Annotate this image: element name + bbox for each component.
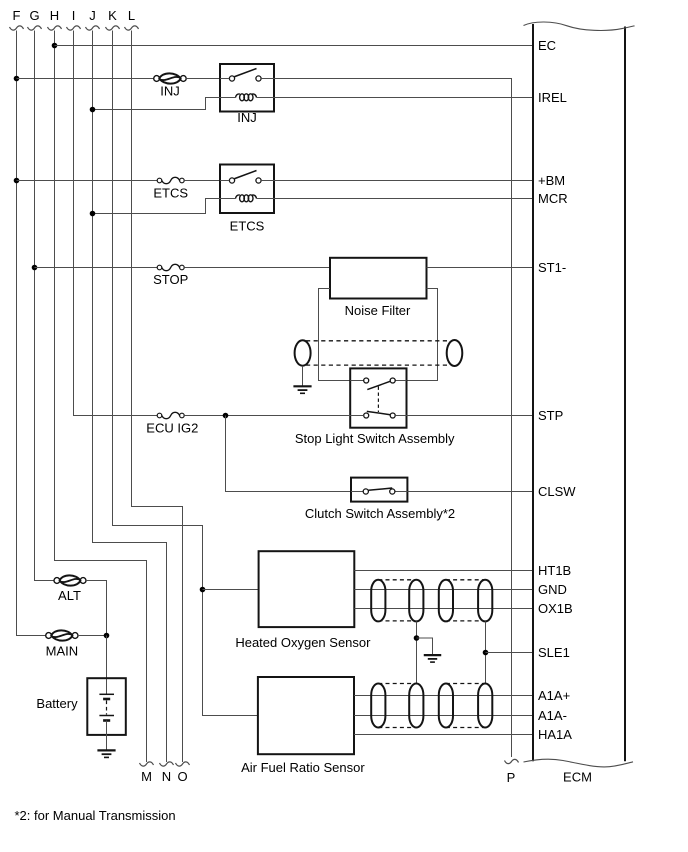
wire H <box>55 31 147 763</box>
svg-text:*2: for Manual Transmission: *2: for Manual Transmission <box>15 808 176 823</box>
svg-text:K: K <box>108 8 117 23</box>
svg-text:IREL: IREL <box>538 90 567 105</box>
junction on J for ETCS coil <box>90 211 96 217</box>
wire fusible link ALT to junction <box>86 581 107 636</box>
svg-text:MCR: MCR <box>538 191 568 206</box>
svg-text:ETCS: ETCS <box>153 186 188 201</box>
fusible link MAIN <box>46 633 52 639</box>
wire relay INJ switch to node P vertical <box>274 79 512 758</box>
air fuel ratio sensor B2 <box>258 677 354 754</box>
wire noise filter left tap to switch <box>319 289 364 381</box>
shield oval outlines AFR row <box>371 684 385 728</box>
wire I <box>74 31 158 416</box>
shield dashes HO2S pair2 <box>446 579 485 581</box>
relay ETCS <box>220 165 274 214</box>
junction sensor feed to HO2S <box>200 587 206 593</box>
junction on J for INJ coil <box>90 107 96 113</box>
wire fusible link MAIN to junction <box>78 635 107 637</box>
svg-text:H: H <box>50 8 59 23</box>
node O break symbol <box>176 762 190 766</box>
ECM right edge <box>624 27 626 762</box>
heated oxygen sensor B1 <box>259 551 355 627</box>
ground for battery <box>97 749 115 751</box>
wire F to fuse ETCS <box>17 180 158 182</box>
wire AFR to A1A- pin <box>354 715 533 717</box>
svg-text:OX1B: OX1B <box>538 601 573 616</box>
node I break symbol <box>67 26 81 30</box>
wire relay INJ coil to IREL pin <box>274 97 533 99</box>
wire GND OX1B through ovals <box>371 589 533 591</box>
svg-text:Air Fuel Ratio Sensor: Air Fuel Ratio Sensor <box>241 760 365 775</box>
wire clutch switch to CLSW pin <box>407 491 533 493</box>
junction on G for STOP <box>32 265 38 271</box>
wire HO2S to OX1B pin <box>354 608 533 610</box>
node L break symbol <box>125 26 139 30</box>
shield dashes HO2S pair1 <box>378 579 416 581</box>
noise filter U1 <box>330 258 427 299</box>
ground for noise filter shield <box>293 385 311 387</box>
svg-text:Heated Oxygen Sensor: Heated Oxygen Sensor <box>235 635 371 650</box>
capacitor left shield oval C1 <box>295 340 311 365</box>
svg-text:HA1A: HA1A <box>538 727 572 742</box>
wire HO2S to HT1B pin <box>354 570 533 572</box>
svg-text:GND: GND <box>538 582 567 597</box>
wire relay ETCS switch to +BM pin <box>274 180 533 182</box>
svg-text:INJ: INJ <box>237 110 257 125</box>
node J break symbol <box>86 26 100 30</box>
junction on F for INJ <box>14 76 20 82</box>
svg-text:F: F <box>13 8 21 23</box>
svg-text:Battery: Battery <box>36 696 78 711</box>
wire noise filter to ST1- pin <box>427 267 534 269</box>
svg-text:STOP: STOP <box>153 272 188 287</box>
fuse STOP <box>157 265 162 270</box>
svg-text:CLSW: CLSW <box>538 484 576 499</box>
shield ovals AFR row fills <box>371 684 385 728</box>
svg-text:J: J <box>89 8 96 23</box>
svg-text:G: G <box>29 8 39 23</box>
wire AFR to A1A+ pin <box>354 695 533 697</box>
wire fuse ECU IG2 to stop light switch <box>184 415 350 417</box>
fuse ETCS <box>157 178 162 183</box>
wire fuse ETCS to relay ETCS <box>184 180 220 182</box>
node N break symbol <box>160 762 174 766</box>
clutch switch assembly S2 <box>351 478 407 502</box>
wire junction to battery <box>106 636 108 695</box>
junction SLE1 <box>483 650 489 656</box>
wire shield oval4 to SLE1 junction <box>485 621 487 683</box>
node H break symbol <box>48 26 62 30</box>
wire battery to ground <box>106 721 108 751</box>
node M break symbol <box>140 762 154 766</box>
svg-text:+BM: +BM <box>538 173 565 188</box>
wire fusible link INJ to relay INJ <box>186 78 220 80</box>
wire AFR to HA1A pin <box>354 734 533 736</box>
svg-text:SLE1: SLE1 <box>538 645 570 660</box>
node P break symbol <box>505 759 519 763</box>
battery BAT1 <box>87 678 126 735</box>
wire junction to SLE1 pin <box>486 652 534 654</box>
wire left oval to ground <box>302 366 304 386</box>
wire feed to HO2S <box>203 589 259 591</box>
svg-text:ETCS: ETCS <box>230 219 265 234</box>
svg-text:STP: STP <box>538 408 563 423</box>
svg-text:N: N <box>162 769 171 784</box>
shield dashes AFR pair2 <box>446 683 485 685</box>
junction on F for ETCS <box>14 178 20 184</box>
svg-text:ST1-: ST1- <box>538 260 566 275</box>
wire J <box>93 31 167 763</box>
wire G to fuse STOP <box>35 267 158 269</box>
svg-text:HT1B: HT1B <box>538 563 571 578</box>
shield dashed lines for capacitors <box>306 340 447 342</box>
svg-text:L: L <box>128 8 135 23</box>
ground for sensor shield <box>424 654 441 656</box>
ECM bottom wavy edge <box>524 759 634 767</box>
wire relay ETCS coil return to J <box>93 199 221 214</box>
fuse ECU IG2 <box>157 413 162 418</box>
wire F <box>17 31 46 636</box>
wire shield oval2 to ground junction <box>416 621 418 683</box>
fusible link INJ <box>154 76 160 82</box>
wire A1A lines through ovals <box>371 695 533 697</box>
wire junction down to clutch switch <box>226 416 352 492</box>
node G break symbol <box>28 26 42 30</box>
wire stop light switch to STP pin <box>407 415 534 417</box>
node F break symbol <box>10 26 24 30</box>
svg-text:O: O <box>177 769 187 784</box>
svg-text:Clutch Switch Assembly*2: Clutch Switch Assembly*2 <box>305 506 455 521</box>
relay INJ <box>220 64 274 112</box>
svg-text:ECM: ECM <box>563 770 592 785</box>
svg-text:A1A-: A1A- <box>538 708 567 723</box>
junction for clutch switch branch <box>223 413 229 419</box>
junction on H for EC <box>52 43 58 49</box>
svg-text:MAIN: MAIN <box>46 644 79 659</box>
svg-text:A1A+: A1A+ <box>538 688 570 703</box>
svg-text:M: M <box>141 769 152 784</box>
wire HO2S to GND pin <box>354 589 533 591</box>
svg-text:INJ: INJ <box>160 84 180 99</box>
wire relay ETCS coil to MCR pin <box>274 198 533 200</box>
wire G <box>35 31 55 581</box>
shield dashes AFR pair1 <box>378 683 416 685</box>
fusible link ALT <box>54 578 60 584</box>
svg-text:Noise Filter: Noise Filter <box>345 303 411 318</box>
wire to sensor ground <box>417 638 433 655</box>
svg-text:P: P <box>507 770 516 785</box>
junction ALT MAIN battery <box>104 633 110 639</box>
wire H to EC pin <box>55 45 534 47</box>
wire relay INJ coil return to J <box>93 98 221 110</box>
svg-text:Stop Light Switch Assembly: Stop Light Switch Assembly <box>295 431 455 446</box>
node K break symbol <box>106 26 120 30</box>
junction sensor shield ground <box>414 635 420 641</box>
capacitor right shield oval C2 <box>447 340 463 366</box>
svg-text:I: I <box>72 8 76 23</box>
ECM left edge <box>532 24 534 761</box>
wire K <box>113 31 258 716</box>
wire L <box>132 31 183 763</box>
svg-text:EC: EC <box>538 38 556 53</box>
svg-text:ECU IG2: ECU IG2 <box>146 421 198 436</box>
wire fuse STOP to noise filter <box>184 267 330 269</box>
stop light switch assembly S1 <box>350 368 406 427</box>
ECM top wavy edge <box>524 22 635 30</box>
wire noise filter right tap to switch <box>395 289 437 381</box>
svg-text:ALT: ALT <box>58 588 81 603</box>
shield oval outlines HO2S row <box>371 580 385 622</box>
shield ovals HO2S row fills <box>371 580 385 622</box>
wire F to fusible link INJ <box>17 78 154 80</box>
